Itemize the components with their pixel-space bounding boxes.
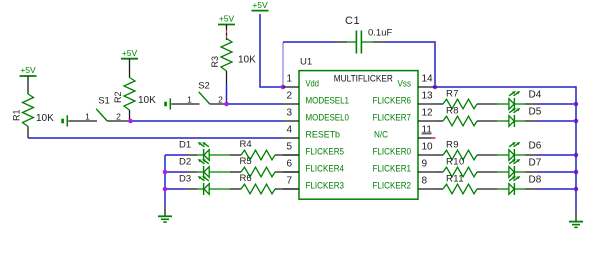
svg-text:RESETb: RESETb [306, 130, 341, 141]
diode D5 LED [497, 107, 542, 127]
svg-text:R8: R8 [446, 106, 459, 117]
resistor R3 10K [210, 39, 256, 85]
wire R3 to S2 junction [226, 84, 228, 104]
wire ground rail to D3 [165, 188, 197, 190]
svg-text:R4: R4 [240, 139, 252, 150]
resistor R4 [230, 139, 299, 160]
svg-text:D5: D5 [529, 107, 542, 118]
svg-text:D3: D3 [179, 174, 191, 185]
wire pin 14 to right ground rail [435, 87, 576, 212]
pin 4 of U1 (RESETb) [283, 125, 340, 141]
junction node D2 rail [163, 170, 168, 175]
svg-text:10K: 10K [138, 95, 156, 106]
wire C1 right to pin 14 of U1 [386, 42, 435, 87]
switch S2 [164, 80, 226, 109]
wire S1/R2 junction to pin 3 of U1 [131, 120, 284, 122]
pin 10 of U1 (FLICKER0) [373, 142, 436, 158]
svg-text:+5V: +5V [219, 14, 235, 24]
svg-text:2: 2 [286, 91, 292, 102]
pin 1 of U1 (Vdd) [283, 74, 319, 90]
wire D7 to right ground rail [525, 171, 576, 173]
junction node S2-R3-pin2 [224, 102, 229, 107]
switch S1 [61, 96, 130, 127]
power +5V supply for R3 [218, 14, 235, 40]
power +5V supply for U1 Vdd [252, 0, 269, 11]
wire D4 to right ground rail [525, 103, 576, 105]
power +5V supply for R2 [121, 48, 138, 78]
svg-text:D7: D7 [529, 158, 542, 169]
svg-text:1: 1 [286, 74, 292, 85]
svg-text:D4: D4 [529, 90, 542, 101]
resistor R11 [435, 174, 497, 194]
svg-text:R2: R2 [113, 91, 123, 103]
svg-text:FLICKER7: FLICKER7 [373, 113, 412, 124]
junction node Vdd pin 1 [281, 85, 286, 90]
svg-text:R7: R7 [446, 89, 459, 100]
pin 5 of U1 (FLICKER5) [283, 142, 344, 158]
resistor R7 [435, 89, 497, 109]
resistor R2 10K [113, 78, 156, 121]
svg-text:N/C: N/C [374, 130, 388, 141]
svg-text:MULTIFLICKER: MULTIFLICKER [334, 73, 393, 83]
svg-text:C1: C1 [345, 15, 360, 27]
svg-text:S2: S2 [198, 80, 210, 91]
svg-text:R11: R11 [446, 174, 464, 185]
junction node D7 rail [574, 170, 579, 175]
op-amp U1 MULTIFLICKER IC body [299, 57, 418, 200]
ground left [158, 205, 172, 222]
resistor R6 [230, 173, 299, 194]
svg-text:10K: 10K [36, 113, 54, 124]
pin 6 of U1 (FLICKER4) [283, 159, 344, 175]
svg-text:7: 7 [286, 176, 292, 187]
junction node D5 rail [574, 119, 579, 124]
wire S2/R3 junction to pin 2 of U1 [227, 103, 284, 105]
svg-text:D2: D2 [179, 157, 191, 168]
junction node D4 rail [574, 102, 579, 107]
pin 11 of U1 (N/C) [374, 125, 436, 141]
svg-text:13: 13 [422, 91, 434, 102]
svg-text:8: 8 [422, 176, 428, 187]
svg-text:R10: R10 [446, 157, 465, 168]
svg-text:+5V: +5V [20, 65, 36, 75]
diode D7 LED [497, 158, 542, 178]
svg-text:+5V: +5V [122, 48, 138, 58]
svg-text:FLICKER3: FLICKER3 [306, 181, 345, 192]
svg-text:0.1uF: 0.1uF [368, 28, 392, 39]
resistor R5 [230, 156, 299, 177]
svg-text:FLICKER5: FLICKER5 [306, 147, 345, 158]
wire D6 to right ground rail [525, 154, 576, 156]
svg-text:R6: R6 [240, 173, 252, 184]
svg-text:9: 9 [422, 159, 428, 170]
wire ground rail to D2 [165, 171, 197, 173]
pin 14 of U1 (Vss) [398, 74, 436, 90]
svg-text:4: 4 [286, 125, 292, 136]
svg-text:+5V: +5V [252, 0, 268, 10]
svg-text:D6: D6 [529, 141, 542, 152]
wire left LED ground rail [164, 155, 166, 205]
junction node S1-R2-pin3 [128, 119, 133, 124]
svg-text:FLICKER6: FLICKER6 [373, 96, 412, 107]
svg-text:MODESEL1: MODESEL1 [306, 96, 350, 107]
wire +5V to pin 1 of U1 [260, 14, 283, 87]
svg-text:2: 2 [116, 112, 121, 122]
capacitor C1 0.1uF [334, 15, 392, 54]
pin 7 of U1 (FLICKER3) [283, 176, 344, 192]
resistor R10 [435, 157, 497, 177]
resistor R1 10K [12, 94, 55, 138]
svg-text:S1: S1 [98, 96, 110, 107]
svg-text:U1: U1 [300, 57, 312, 68]
svg-text:R5: R5 [240, 156, 252, 167]
svg-text:12: 12 [422, 108, 434, 119]
svg-text:5: 5 [286, 142, 292, 153]
svg-text:10: 10 [422, 142, 434, 153]
junction node Vss pin 14 [433, 85, 438, 90]
pin 13 of U1 (FLICKER6) [373, 91, 436, 107]
diode D6 LED [497, 141, 542, 161]
svg-text:10K: 10K [238, 55, 256, 66]
svg-text:FLICKER4: FLICKER4 [306, 164, 345, 175]
junction node D3 rail [163, 187, 168, 192]
diode D4 LED [497, 90, 542, 110]
wire ground rail to D1 [165, 154, 197, 156]
wire D5 to right ground rail [525, 120, 576, 122]
svg-text:R9: R9 [446, 140, 459, 151]
svg-text:FLICKER0: FLICKER0 [373, 147, 412, 158]
diode D1 LED [179, 140, 230, 162]
pin 8 of U1 (FLICKER2) [373, 176, 436, 192]
svg-text:Vss: Vss [398, 79, 412, 90]
resistor R8 [435, 106, 497, 126]
diode D2 LED [179, 157, 230, 179]
pin 3 of U1 (MODESEL0) [283, 108, 349, 124]
wire D8 to right ground rail [525, 188, 576, 190]
svg-text:1: 1 [187, 95, 192, 105]
svg-text:D8: D8 [529, 175, 542, 186]
junction node D6 rail [574, 153, 579, 158]
svg-text:MODESEL0: MODESEL0 [306, 113, 350, 124]
ground right [569, 212, 583, 227]
resistor R9 [435, 140, 497, 160]
wire R1 to pin 4 of U1 [28, 137, 283, 139]
svg-text:FLICKER1: FLICKER1 [373, 164, 412, 175]
wire C1 left [283, 41, 334, 43]
pin 12 of U1 (FLICKER7) [373, 108, 436, 124]
svg-text:D1: D1 [179, 140, 191, 151]
svg-text:Vdd: Vdd [306, 79, 320, 90]
svg-text:6: 6 [286, 159, 292, 170]
svg-text:FLICKER2: FLICKER2 [373, 181, 412, 192]
svg-text:14: 14 [422, 74, 434, 85]
svg-text:1: 1 [85, 112, 90, 122]
wire pin1 node up to C1 (bypass branch) [282, 42, 284, 87]
pin 9 of U1 (FLICKER1) [373, 159, 436, 175]
svg-text:2: 2 [218, 95, 223, 105]
svg-text:3: 3 [286, 108, 292, 119]
svg-text:R3: R3 [210, 56, 220, 68]
pin 2 of U1 (MODESEL1) [283, 91, 349, 107]
junction node D8 rail [574, 187, 579, 192]
diode D8 LED [497, 175, 542, 195]
power +5V supply for R1 [20, 65, 37, 94]
svg-text:R1: R1 [12, 109, 22, 121]
diode D3 LED [179, 174, 230, 196]
